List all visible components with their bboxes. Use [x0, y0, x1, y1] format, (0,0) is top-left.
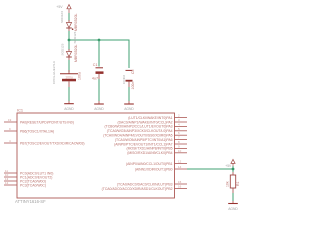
svg-text:+5V: +5V: [225, 164, 232, 168]
svg-text:4: 4: [178, 122, 180, 126]
svg-text:CPOL-EUE2.5-6: CPOL-EUE2.5-6: [52, 61, 56, 84]
node junction at (99,40): [98, 39, 101, 42]
svg-text:10: 10: [178, 149, 182, 153]
+5V power symbol right: [225, 159, 235, 168]
pin 9 XTAL1 stub: [4, 130, 17, 132]
svg-text:7: 7: [178, 136, 180, 140]
svg-text:15: 15: [178, 180, 182, 184]
svg-text:AGND: AGND: [228, 207, 238, 211]
ground AGND right: [124, 101, 134, 111]
svg-text:4u7: 4u7: [92, 77, 98, 81]
svg-text:(TCB0/WO0/AINP2/CCL/LUT1/EVOUT: (TCB0/WO0/AINP2/CCL/LUT1/EVOUT0)PA3: [105, 125, 173, 129]
svg-text:100u: 100u: [78, 72, 82, 80]
svg-text:(MOSI/TXD1/AINP8/INT0)PB5: (MOSI/TXD1/AINP8/INT0)PB5: [127, 147, 173, 151]
svg-text:19: 19: [8, 118, 12, 122]
wire rail corner down to C5: [128, 40, 130, 69]
svg-text:+5V: +5V: [56, 5, 63, 9]
svg-text:16: 16: [178, 185, 182, 189]
svg-text:MBR0520L: MBR0520L: [74, 44, 78, 62]
ground AGND right column: [228, 201, 238, 211]
+5V power symbol left: [56, 5, 71, 14]
svg-text:SOD123: SOD123: [61, 43, 65, 55]
svg-text:PA0(RESET/UPDI/PCINT/UTS IN0): PA0(RESET/UPDI/PCINT/UTS IN0): [20, 120, 74, 124]
diode D2: [61, 31, 79, 62]
svg-text:(TCA0/ADC0/ACC0/XDIR/ASD1/CLKO: (TCA0/ADC0/ACC0/XDIR/ASD1/CLKOUT)PB2: [102, 187, 173, 191]
svg-text:C1: C1: [93, 63, 98, 67]
capacitor C1: [92, 63, 104, 81]
wire +5V to D1: [68, 13, 70, 21]
wire D2 to C3: [68, 60, 70, 72]
wire D1 to node: [68, 31, 70, 40]
svg-text:(TCA0/WO5/AINP5/PTC/INT0/A1)PA: (TCA0/WO5/AINP5/PTC/INT0/A1)PA6: [115, 138, 173, 142]
pin 4 XTAL2 stub: [4, 142, 17, 144]
svg-text:AGND: AGND: [64, 107, 74, 111]
svg-text:10k: 10k: [226, 181, 230, 187]
bottom-left pins PC0-PC3: [4, 172, 17, 174]
svg-text:9: 9: [178, 144, 180, 148]
diode D1: [60, 11, 78, 31]
svg-text:(AINP6/PTC/EVOUT1/INT1/CCL1)PA: (AINP6/PTC/EVOUT1/INT1/CCL1)PA7: [114, 142, 172, 146]
wire C5 to gnd: [128, 87, 130, 101]
svg-text:MBR0520L: MBR0520L: [74, 13, 78, 31]
ground AGND mid: [94, 101, 104, 111]
wire node to C1: [98, 40, 100, 67]
svg-text:5: 5: [178, 127, 180, 131]
svg-text:(LUT1/CLKI/WAKE/INT0)PA1: (LUT1/CLKI/WAKE/INT0)PA1: [128, 116, 172, 120]
right-side top pins PA1..PB4: [175, 118, 188, 153]
wire C3 to gnd: [68, 87, 70, 101]
svg-text:PC3(TCA0/W0C): PC3(TCA0/W0C): [20, 183, 46, 187]
svg-text:6: 6: [178, 131, 180, 135]
svg-text:4: 4: [9, 139, 11, 143]
svg-text:14: 14: [178, 165, 182, 169]
svg-text:9: 9: [9, 127, 11, 131]
svg-text:C5: C5: [131, 69, 135, 74]
resistor R1: [226, 172, 240, 193]
svg-text:(DAC0/AINP1/WAKE/INT0/CCL)PA2: (DAC0/AINP1/WAKE/INT0/CCL)PA2: [117, 120, 172, 124]
svg-text:(TCA0/ADC0/DAC0/CLKIN/LUT)PB3: (TCA0/ADC0/DAC0/CLKIN/LUT)PB3: [117, 182, 173, 186]
svg-text:(MISO/RXD1/AIN9/CLK0)PB4: (MISO/RXD1/AIN9/CLK0)PB4: [127, 151, 172, 155]
node junction at (69,40): [68, 39, 71, 42]
wire horizontal AVCC rail: [69, 39, 130, 41]
svg-text:SOD123: SOD123: [60, 11, 64, 23]
svg-text:(AINN1/XDIR/OUT1)PB0: (AINN1/XDIR/OUT1)PB0: [135, 167, 173, 171]
wire C1 to gnd: [98, 79, 100, 101]
right-side middle pins: [175, 163, 188, 165]
wire +5V to node: [232, 166, 234, 172]
wire PB0 to R1 node: [187, 168, 233, 170]
svg-text:R1: R1: [236, 181, 240, 186]
svg-text:PB7(TOSC2/EVOUT/TXD/XDIR/CAOW0: PB7(TOSC2/EVOUT/TXD/XDIR/CAOW03): [20, 141, 85, 145]
svg-text:(TCA0/WO4/AINP4/EVOUT0/SS0/XDI: (TCA0/WO4/AINP4/EVOUT0/SS0/XDIR0)PA5: [103, 134, 172, 138]
wire R1 to gnd: [232, 193, 234, 201]
svg-text:8: 8: [178, 140, 180, 144]
svg-text:12: 12: [178, 160, 182, 164]
node junction at (233,169): [232, 168, 235, 171]
wire node to D2: [68, 40, 70, 50]
ground AGND left: [64, 101, 74, 111]
svg-text:100n: 100n: [131, 82, 135, 90]
pin 19 RESET stub: [4, 121, 17, 123]
svg-text:PB6(TOSC1/XTAL1/A): PB6(TOSC1/XTAL1/A): [20, 129, 54, 133]
capacitor C5: [122, 69, 135, 89]
svg-text:12: 12: [5, 181, 9, 185]
capacitor C3 polarized: [52, 61, 82, 87]
IC IC1 ATTINY1616 box: [17, 113, 175, 198]
svg-text:3: 3: [178, 118, 180, 122]
svg-text:(TCA0/WO3/AINP3/XCK0/CLKOUT/L0: (TCA0/WO3/AINP3/XCK0/CLKOUT/L0)PA4: [107, 129, 173, 133]
svg-text:AGND: AGND: [124, 107, 134, 111]
svg-text:SOD123: SOD123: [73, 31, 77, 43]
svg-text:(AINP0/AIN0/CCL1/OUT0)PB1: (AINP0/AIN0/CCL1/OUT0)PB1: [126, 162, 173, 166]
right-side lower pins: [175, 183, 188, 185]
svg-text:C0402: C0402: [122, 75, 126, 84]
svg-text:IC1: IC1: [17, 108, 23, 113]
svg-text:ATTINY1616-SF: ATTINY1616-SF: [15, 199, 46, 204]
svg-text:AGND: AGND: [94, 107, 104, 111]
svg-text:2: 2: [178, 114, 180, 118]
